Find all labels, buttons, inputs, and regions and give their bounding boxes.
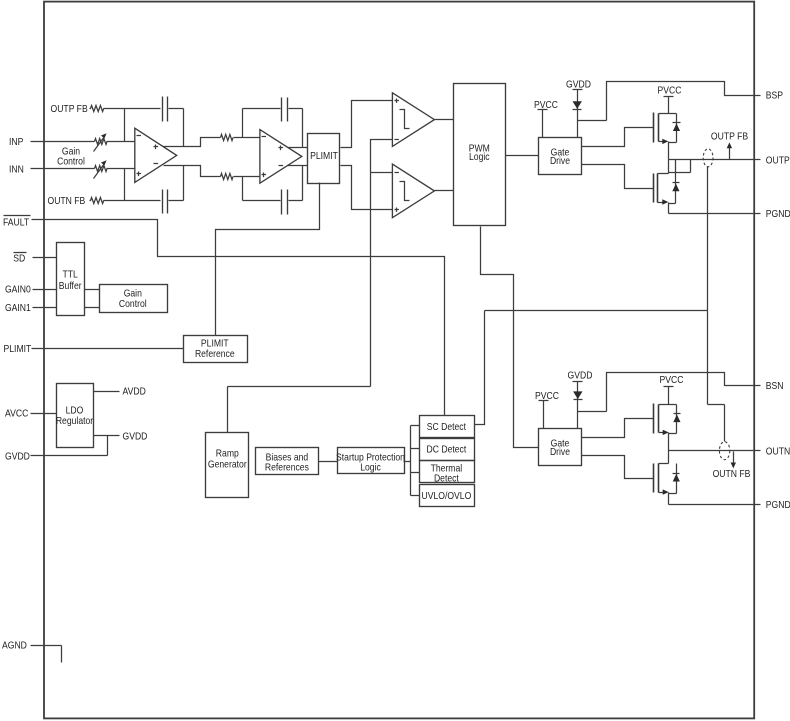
resistor (OUTP FB) bbox=[90, 106, 104, 112]
wire bootstrap to BSN bbox=[578, 373, 761, 412]
comparator U2 bbox=[392, 164, 434, 218]
wire A2 lower output to PLIMIT bbox=[288, 165, 308, 167]
block LDO Regulator bbox=[57, 384, 94, 448]
wire PLIMIT upper output to comparator U1 + bbox=[341, 101, 393, 148]
wire R4 to op-amp A2 bbox=[234, 176, 261, 178]
svg-text:Drive: Drive bbox=[550, 446, 570, 458]
wire comparator U1 output to PWM Logic bbox=[435, 119, 454, 121]
svg-text:AVDD: AVDD bbox=[123, 386, 147, 398]
wire comparator U2 output to PWM Logic bbox=[435, 190, 454, 192]
block PLIMIT Reference bbox=[184, 336, 248, 363]
svg-text:GAIN1: GAIN1 bbox=[5, 302, 31, 314]
wire INN resistor to op-amp A1 bbox=[107, 168, 136, 170]
block Gain Control bbox=[100, 285, 168, 313]
wire PVCC to Q1 drain bbox=[668, 97, 670, 114]
svg-text:Drive: Drive bbox=[550, 155, 570, 167]
wire PWM Logic bottom to Gate Drive (bottom channel) bbox=[481, 227, 539, 448]
svg-text:PLIMIT: PLIMIT bbox=[310, 150, 338, 162]
wire Gate Drive 2 to Q4 gate bbox=[582, 456, 654, 479]
dashed ellipse (OUTN sense point) bbox=[719, 442, 729, 460]
wire bootstrap to BSP bbox=[578, 82, 761, 121]
arrow OUTP FB sense bbox=[729, 147, 731, 160]
svg-text:Generator: Generator bbox=[208, 458, 247, 470]
wire PVCC to Q3 drain bbox=[668, 387, 670, 405]
wire junction lower input node A2 to cap C4 bbox=[242, 177, 244, 201]
transistor Q1 (high-side NMOS) bbox=[653, 113, 655, 143]
wire junction upper input node A2 to cap C3 bbox=[242, 109, 244, 138]
body diode Q4 bbox=[676, 464, 678, 494]
wire GVDD through diode D2 to Gate Drive 2 bbox=[577, 382, 579, 429]
comparator U1 bbox=[392, 93, 434, 147]
wire PLIMIT bottom to PLIMIT Reference bbox=[216, 183, 320, 336]
svg-text:Regulator: Regulator bbox=[56, 415, 94, 427]
block SC Detect bbox=[420, 416, 475, 438]
terminal PVCC tick bbox=[538, 109, 548, 111]
wire AVCC to LDO bbox=[31, 413, 57, 415]
block Gate Drive (top) bbox=[539, 138, 582, 175]
wire A1 lower output to R4 bbox=[164, 166, 221, 177]
block Thermal Detect bbox=[420, 461, 475, 483]
svg-text:GVDD: GVDD bbox=[5, 451, 30, 463]
transistor Q2 (low-side NMOS) bbox=[658, 160, 669, 174]
svg-text:Control: Control bbox=[119, 298, 147, 310]
diode D1 (bootstrap, GVDD) bbox=[573, 101, 582, 109]
diode D2 (bootstrap, GVDD) bbox=[573, 391, 582, 399]
svg-text:INN: INN bbox=[9, 163, 24, 175]
wire output sense vertical bbox=[708, 167, 725, 442]
svg-text:SD: SD bbox=[13, 253, 25, 265]
body diode Q1 bbox=[676, 114, 678, 143]
capacitor C3 (integrator A2 upper) bbox=[282, 98, 288, 122]
block Startup Protection Logic bbox=[338, 448, 405, 474]
svg-text:References: References bbox=[265, 462, 309, 474]
svg-text:SC Detect: SC Detect bbox=[427, 421, 466, 433]
wire detect bracket bbox=[411, 426, 420, 496]
capacitor C2 (integrator A1 lower) bbox=[163, 190, 168, 214]
wire R3 to op-amp A2 bbox=[234, 137, 261, 139]
svg-text:OUTN FB: OUTN FB bbox=[48, 195, 86, 207]
svg-text:AVCC: AVCC bbox=[5, 408, 29, 420]
body diode Q2 bbox=[675, 173, 677, 204]
svg-text:OUTN: OUTN bbox=[766, 446, 790, 458]
wire INP resistor to op-amp A1 bbox=[107, 141, 136, 143]
wire INP bbox=[31, 141, 95, 143]
svg-text:GAIN0: GAIN0 bbox=[5, 284, 31, 296]
svg-text:OUTP FB: OUTP FB bbox=[711, 130, 748, 142]
svg-text:DC Detect: DC Detect bbox=[427, 444, 467, 456]
svg-text:GVDD: GVDD bbox=[123, 430, 148, 442]
svg-text:PVCC: PVCC bbox=[660, 374, 684, 386]
svg-text:Logic: Logic bbox=[360, 462, 381, 474]
wire GVDD through diode D1 to Gate Drive 1 bbox=[577, 90, 579, 138]
wire GAIN0 to TTL Buffer bbox=[33, 289, 57, 291]
wire FAULT to SC Detect bbox=[32, 220, 445, 416]
wire C2 right to A1 lower output bbox=[169, 166, 184, 201]
wire TTL Buffer to Gain Control (lower) bbox=[85, 307, 100, 309]
svg-text:Reference: Reference bbox=[195, 348, 235, 360]
svg-text:OUTP FB: OUTP FB bbox=[51, 103, 88, 115]
block Biases and References bbox=[256, 448, 319, 475]
variable resistor (gain) INN bbox=[95, 166, 107, 172]
wire C3 left bbox=[243, 108, 281, 110]
op-amp A2 (second integrator stage) bbox=[260, 130, 302, 184]
svg-text:OUTN FB: OUTN FB bbox=[713, 468, 751, 480]
wire junction OUTN FB node to INN line bbox=[124, 169, 126, 201]
wire OUTP node bbox=[669, 159, 761, 161]
op-amp A1 (input differential amplifier) bbox=[135, 128, 177, 182]
wire ramp to comparator inverting inputs bbox=[371, 140, 393, 387]
svg-text:GVDD: GVDD bbox=[568, 369, 593, 381]
wire GAIN1 to TTL Buffer bbox=[33, 307, 57, 309]
capacitor C1 (integrator A1 upper) bbox=[163, 97, 168, 122]
wire C1 right to A1 upper output bbox=[169, 109, 184, 147]
svg-text:FAULT: FAULT bbox=[3, 216, 30, 228]
svg-text:BSP: BSP bbox=[766, 90, 783, 102]
wire Gate Drive 1 to Q2 gate bbox=[582, 165, 654, 189]
arrow OUTN FB sense bbox=[733, 452, 735, 465]
block TTL Buffer bbox=[57, 243, 85, 316]
wire PVCC to Gate Drive 1 bbox=[542, 110, 544, 138]
wire PGND (top) bbox=[669, 213, 761, 215]
svg-text:Detect: Detect bbox=[434, 472, 459, 484]
wire PGND (bottom) bbox=[669, 504, 761, 506]
wire C3 right to A2 upper output bbox=[289, 109, 303, 148]
svg-text:PLIMIT: PLIMIT bbox=[4, 343, 32, 355]
svg-text:PVCC: PVCC bbox=[658, 85, 682, 97]
svg-text:AGND: AGND bbox=[2, 640, 27, 652]
wire C4 left bbox=[243, 200, 281, 202]
dashed ellipse (OUTP sense point) bbox=[703, 149, 713, 167]
svg-text:Logic: Logic bbox=[469, 151, 490, 163]
wire AGND bbox=[31, 646, 62, 663]
svg-text:INP: INP bbox=[9, 136, 23, 148]
terminal PVCC tick bbox=[664, 386, 674, 388]
block Ramp Generator bbox=[206, 433, 249, 498]
block DC Detect bbox=[420, 439, 475, 461]
variable resistor (gain) INP bbox=[95, 139, 107, 145]
block PWM Logic bbox=[454, 84, 506, 226]
wire TTL Buffer to Gain Control (upper) bbox=[85, 289, 100, 291]
wire SD to TTL Buffer bbox=[33, 257, 57, 259]
wire LDO to GVDD bbox=[94, 435, 120, 437]
wire LDO to AVDD bbox=[94, 391, 120, 393]
terminal PVCC tick bbox=[539, 400, 549, 402]
terminal GVDD tick bbox=[573, 381, 583, 383]
wire PLIMIT lower output to comparator U2 + bbox=[341, 166, 393, 210]
svg-text:OUTP: OUTP bbox=[766, 154, 790, 166]
transistor Q3 (high-side NMOS) bbox=[653, 404, 655, 434]
resistor R3 (inter-stage upper) bbox=[221, 134, 234, 140]
body diode Q3 bbox=[676, 405, 678, 434]
capacitor C4 (integrator A2 lower) bbox=[282, 190, 288, 215]
svg-text:UVLO/OVLO: UVLO/OVLO bbox=[422, 490, 472, 502]
wire A1 upper output to R3 bbox=[164, 138, 221, 147]
wire PWM Logic to Gate Drive (top channel) bbox=[506, 155, 539, 157]
wire Gate Drive 2 to Q3 gate bbox=[582, 419, 654, 438]
svg-text:Control: Control bbox=[57, 156, 85, 168]
wire Gate Drive 1 to Q1 gate bbox=[582, 128, 654, 147]
block PLIMIT bbox=[308, 134, 340, 184]
wire Biases to Startup Protection bbox=[319, 461, 338, 463]
terminal GVDD tick bbox=[573, 89, 583, 91]
svg-text:BSN: BSN bbox=[766, 380, 784, 392]
wire Ramp Generator output to comparators bbox=[228, 387, 371, 433]
svg-text:TTL: TTL bbox=[63, 269, 78, 281]
wire C4 right to A2 lower output bbox=[289, 166, 303, 201]
transistor Q4 (low-side NMOS) bbox=[659, 451, 669, 464]
wire bootstrap notch (OUTP) bbox=[669, 160, 691, 173]
wire Startup Protection to detect bracket bbox=[404, 461, 411, 463]
svg-text:PGND: PGND bbox=[766, 208, 790, 220]
wire OUTP FB to cap C1 bbox=[104, 108, 161, 110]
wire GVDD pin to GVDD net bbox=[31, 436, 108, 456]
svg-text:Buffer: Buffer bbox=[59, 280, 82, 292]
block UVLO/OVLO bbox=[420, 485, 475, 507]
resistor R4 (inter-stage lower) bbox=[221, 173, 234, 179]
terminal PVCC tick bbox=[664, 96, 674, 98]
wire SC Detect to output sense line bbox=[475, 311, 708, 425]
wire junction OUTP FB node to INP line bbox=[124, 109, 126, 142]
block Gate Drive (bottom) bbox=[539, 429, 582, 466]
wire PVCC to Gate Drive 2 bbox=[543, 401, 545, 429]
wire INN bbox=[31, 168, 95, 170]
wire PLIMIT pin to PLIMIT Reference bbox=[32, 348, 184, 350]
wire A2 upper output to PLIMIT bbox=[288, 147, 308, 149]
svg-text:PGND: PGND bbox=[766, 499, 790, 511]
wire OUTN node bbox=[669, 450, 761, 452]
wire OUTN FB to cap C2 bbox=[104, 200, 161, 202]
resistor (OUTN FB) bbox=[90, 198, 104, 204]
